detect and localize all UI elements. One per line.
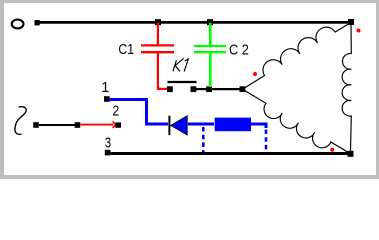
svg-text:3: 3 (105, 136, 111, 152)
motor winding W3 (lower diagonal coil) (242, 89, 350, 154)
node delta vertex bottom-right (348, 151, 354, 157)
terminal marker dot W (330, 148, 334, 152)
svg-text:2: 2 (112, 104, 119, 120)
wire C2 bottom lead (209, 53, 212, 88)
terminal marker dot V (253, 72, 257, 76)
wire terminal 1 to diode (blue) (109, 100, 168, 125)
contact pin left K1 (167, 86, 173, 92)
AC source squiggle (15, 107, 26, 135)
node junction C2 bottom (206, 86, 212, 92)
node junction C2/top bus (207, 19, 213, 25)
node mid L2 (75, 122, 81, 128)
node 0 (phase L1 source symbol) (12, 20, 24, 29)
node delta vertex left (240, 86, 246, 92)
wire contact to C2 node (196, 88, 207, 90)
motor winding W2 (right vertical coil) (342, 24, 351, 151)
motor winding W1 (upper diagonal coil) (242, 22, 351, 89)
wire red current arrow (80, 124, 113, 126)
node junction C1/top bus (155, 19, 161, 25)
node junction top-right (delta vertex U) (348, 19, 354, 25)
wire C1 bottom lead (158, 53, 168, 89)
capacitor C1 (141, 44, 174, 46)
terminal L1 (35, 20, 40, 25)
wire L2 (39, 124, 75, 126)
wire C1 top lead (157, 23, 159, 45)
wire top bus (39, 21, 351, 24)
terminal 2 (115, 122, 121, 127)
wire to motor vertex (212, 88, 240, 90)
wire bottom bus (110, 152, 348, 155)
arrowhead (113, 121, 116, 128)
dashed link left (202, 127, 205, 152)
svg-text:C 2: C 2 (229, 42, 249, 58)
terminal 3 (105, 150, 111, 156)
relay contact K1 label (173, 58, 188, 71)
diode D1 cathode bar (168, 116, 170, 135)
frame border (0, 0, 379, 179)
dashed link right (265, 130, 268, 153)
contact pin right K1 (191, 86, 197, 92)
capacitor C2 (194, 45, 226, 47)
relay coil K1 body (215, 118, 251, 132)
svg-text:1: 1 (101, 80, 109, 96)
terminal L2 (33, 122, 39, 128)
wire diode to relay coil (188, 123, 214, 126)
wire C2 top lead (209, 23, 212, 46)
relay contact K1 bar (168, 81, 197, 83)
wire relay coil right (250, 124, 266, 128)
diode D1 triangle (171, 116, 187, 135)
terminal marker dot U (357, 29, 361, 33)
terminal 1 (104, 96, 110, 102)
svg-text:C1: C1 (118, 42, 134, 58)
